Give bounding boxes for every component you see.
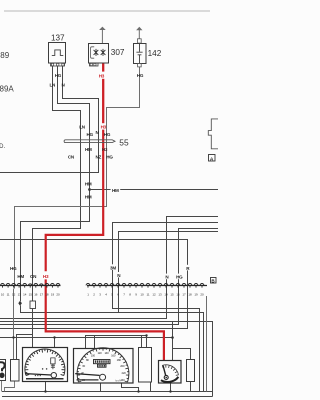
left row pin 20 [56,283,60,285]
wire HM branch to right margin [90,189,219,191]
left row pin 12 [12,283,16,285]
label N above right row pin14 [165,274,170,280]
device 142 inner symbol [136,43,142,63]
svg-text:240: 240 [120,378,125,382]
svg-text:307: 307 [111,48,125,57]
connector A box [209,155,216,162]
svg-text:120: 120 [97,351,102,355]
svg-text:NZ: NZ [95,155,101,160]
svg-text:HM: HM [85,182,92,187]
inline resistor below left row [30,301,36,309]
wire bottom bus lower [2,396,213,398]
svg-text:20: 20 [200,292,204,296]
speedometer floor band [77,379,99,381]
splice diamond below left row [18,301,22,306]
svg-text:20: 20 [56,292,60,296]
svg-text:HG: HG [176,275,183,280]
svg-text:140: 140 [104,351,109,355]
right row pin 5 [110,283,114,285]
svg-text:HG: HG [10,266,17,271]
svg-text:11: 11 [7,292,10,296]
left row pin 19 [51,283,55,285]
left row pin 15 [28,284,32,285]
sensor rectangle [11,360,20,382]
svg-text:17: 17 [182,292,186,296]
wire N/NZ from relay 137 pin3 through connector 55 to left margin [0,66,99,172]
svg-text:HM: HM [112,188,119,193]
lamp symbol 2 [101,49,106,56]
svg-text:10: 10 [140,292,144,296]
svg-text:CN: CN [68,155,75,160]
tachometer floor band [26,378,64,380]
svg-text:12: 12 [152,292,156,296]
svg-text:18: 18 [45,292,49,296]
wire HG from device 142 through connector 55 down to gauge feed [15,67,140,289]
wire LN from relay 137 pin1 to connector 55 then node CN to instrument cluster [33,66,81,347]
svg-text:137: 137 [51,33,65,42]
right connector row rail [87,285,207,287]
svg-text:19: 19 [51,292,55,296]
lamp unit 307 box [89,44,109,64]
fuel gauge outer arc [162,365,178,375]
right row pin 6 [116,283,120,285]
fuel gauge base curve [161,377,178,382]
svg-text:HG: HG [137,73,144,78]
connector 55 bar [64,140,115,143]
right row pin 15 [170,284,174,286]
svg-text:220: 220 [122,371,127,375]
tachometer face arc [25,349,65,376]
tachometer scale dashes [35,375,42,377]
red trace wire HB middle segment to connector 55 [102,79,104,123]
svg-text:12: 12 [12,292,16,296]
wire R bus to connector pin 18 and left bus [0,240,188,329]
indicator icon glyph [0,362,5,371]
svg-text:3M: 3M [110,265,116,270]
wire icon box bottom to bus [1,381,3,392]
svg-text:19: 19 [194,292,198,296]
svg-text:18: 18 [188,292,192,296]
wire speedometer bottoms to bus [101,383,139,392]
right row pin 18 [188,283,192,285]
wire right resistor bottom to bus [190,382,192,392]
wire connector pin12 down to sensor rect [13,289,15,360]
svg-text:HG: HG [106,155,113,160]
svg-text:200: 200 [120,364,125,368]
svg-text:55: 55 [119,138,129,148]
right resistor rectangle [187,360,195,382]
wire right margin drop [206,296,208,392]
svg-text:HG: HG [104,132,111,137]
left row pin 17 [40,284,44,285]
page header rule [4,10,210,12]
svg-text:CN: CN [30,274,37,279]
right row pin 13 [158,284,162,286]
tachometer center icon [51,358,55,369]
svg-text:15: 15 [170,292,174,296]
svg-text:16: 16 [34,292,38,296]
svg-text:H3: H3 [101,125,107,130]
tachometer box [23,348,68,382]
device 142 top pin [138,39,142,43]
svg-text:17: 17 [40,292,44,296]
right row pin 11 [146,284,150,286]
wire HG from right margin to connector pin 16 and left bus [0,229,218,325]
svg-text:H3: H3 [102,147,108,152]
center module rectangle [139,348,152,383]
speedometer odometer [94,360,111,364]
right row pin 20 [200,284,204,286]
connector B box [211,278,217,284]
right row pin 19 [194,284,198,286]
right row pin 3 [98,283,102,285]
left row pin 18 [45,283,49,285]
svg-text:11: 11 [147,292,150,296]
svg-text:km/h: km/h [115,379,121,382]
red trace wire HB main run to fuse and fuel gauge [46,130,164,361]
wire HG/HM from relay 137 pin2 through connector 55, junction HM, to fuse row and bus [21,66,204,391]
wire drop to fuel gauge [172,322,174,361]
label 3M above right row [110,264,117,270]
right row pin 14 [164,284,168,286]
svg-text:HG: HG [87,132,94,137]
wire fuel gauge bottom to bus [170,383,172,392]
lamp symbol 1 [94,49,99,56]
speedometer hub [100,374,106,380]
svg-text:142: 142 [148,49,162,58]
right row pin 8 [128,284,132,286]
svg-text:.D.: .D. [0,144,6,150]
left row pin 10 [1,283,5,285]
left row pin 11 [6,284,10,286]
wire short bus to sensor rect second pin [17,335,33,360]
junction HM dot [88,188,91,191]
svg-text:HM: HM [17,274,24,279]
svg-text:H3: H3 [99,74,105,79]
tachometer hub [51,373,56,378]
junction dots bottom bus [44,390,46,392]
svg-text:100: 100 [91,354,96,358]
wire center module left feed [141,336,143,348]
lamp unit 307 inner bracket [91,47,95,58]
svg-text:14: 14 [164,292,168,296]
right row pin 17 [182,284,186,286]
wire bus y337.8 across cluster feeds [0,337,173,339]
relay 137 box [49,43,66,64]
page link bracket A [208,119,218,149]
device 142 box [134,44,147,64]
svg-text:10: 10 [1,292,5,296]
fuel gauge box [159,361,182,384]
lamp unit 307 supply arrow [101,30,103,44]
right row pin 10 [140,284,144,286]
svg-text:15: 15 [29,292,33,296]
speedometer box [74,349,134,384]
device 142 bottom pin [138,64,142,67]
junction dots on cluster bus [12,336,14,338]
right row pin 9 [134,283,138,285]
svg-text:LN: LN [79,124,86,129]
wire N from right margin to connector pin 6 and bus [119,232,219,313]
svg-text:HG: HG [55,73,62,78]
indicator icon box far left [0,360,6,381]
device 142 supply arrow [138,30,140,39]
speedometer ticks [77,348,129,382]
label HM on branch [111,187,121,193]
svg-text:HM: HM [85,194,92,199]
wire bottom bus upper [2,391,213,393]
tachometer ticks [25,349,65,376]
svg-text:180: 180 [117,358,122,362]
wire sensor rect bottom hook to bus [5,382,15,392]
svg-text:89: 89 [0,51,9,60]
fuel gauge needle [163,366,166,378]
right row pin 1 [86,283,90,285]
svg-text:13: 13 [18,292,22,296]
svg-text:H3: H3 [43,274,49,279]
tachometer dots [42,368,44,370]
svg-text:HM: HM [85,147,92,152]
wire bus to right margin drop [0,322,213,397]
svg-text:13: 13 [158,292,162,296]
right row pin 7 [122,283,126,285]
svg-text:16: 16 [176,292,180,296]
label HG above right row pin16 [175,274,183,280]
wire to right resistor box [173,349,191,360]
fuel gauge hub [164,375,168,379]
relay 137 pulse symbol [52,50,64,56]
tachometer needle [25,374,51,375]
lamp unit 307 pin tray [90,63,99,66]
svg-text:89A: 89A [0,85,14,94]
red trace wire HB from lamp unit 307 upper segment [102,63,104,71]
left row pin 16 [34,283,38,285]
wire speedometer second top feed [94,336,96,349]
left row pin 13 [17,284,21,286]
right row pin 12 [152,284,156,286]
wire tachometer bottom to bus [45,382,47,392]
right row pin 16 [176,284,180,286]
svg-text:14: 14 [23,292,27,296]
label R above right row pin18 [186,265,191,271]
label N above right row pin6 [117,272,121,277]
relay 137 pin tray [51,63,65,66]
speedometer needle [75,374,99,376]
wire bus to speedometer and center module [86,336,147,349]
left row pin 14 [23,284,27,286]
wire N from right margin to connector pin 14 and left bus [0,217,218,319]
right row pin 4 [104,283,108,285]
wire 3M from right margin to connector pin 5 and lower bus [113,223,219,392]
wire module bottom to bus [150,382,152,392]
svg-text:160: 160 [111,354,116,358]
right row pin 2 [92,283,96,285]
speedometer face arc [77,348,129,382]
fuel gauge ticks [162,365,178,376]
left connector row rail [0,285,61,287]
wire drop to tachometer [54,338,56,348]
svg-text:LN: LN [49,83,56,88]
